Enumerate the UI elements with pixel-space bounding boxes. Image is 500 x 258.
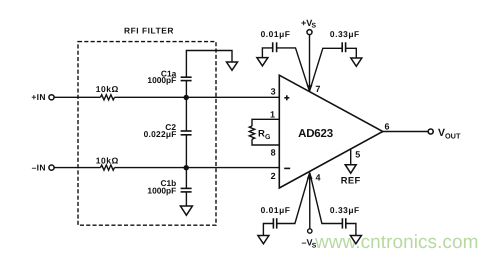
svg-text:S: S bbox=[312, 23, 317, 30]
wire C1a to top ground bbox=[186, 51, 232, 78]
wire C1b to ground bbox=[185, 192, 187, 206]
svg-text:+IN: +IN bbox=[31, 92, 45, 102]
svg-text:AD623: AD623 bbox=[298, 128, 333, 140]
svg-text:10kΩ: 10kΩ bbox=[96, 84, 119, 94]
resistor R 10k ohm (top) bbox=[96, 84, 119, 100]
pin 6 output wire bbox=[383, 121, 428, 131]
pin 3 label bbox=[271, 86, 276, 96]
ground (bottom 0.33uF) bbox=[350, 236, 361, 244]
svg-text:3: 3 bbox=[271, 86, 276, 96]
junction node B (-IN row) bbox=[184, 165, 189, 170]
RFI FILTER label bbox=[124, 26, 174, 36]
wire 0.01uF to pin7 bbox=[277, 48, 310, 91]
wire 0.01uF bottom left to ground bbox=[263, 224, 273, 236]
wire pin1 to RG bbox=[252, 119, 279, 126]
wire +VS to pin7 bbox=[309, 35, 311, 92]
wire C2 to junction B bbox=[185, 135, 187, 168]
ground (top 0.01uF) bbox=[257, 58, 268, 66]
ground (top 0.33uF) bbox=[351, 58, 362, 66]
wire 0.01uF to pin4 bbox=[277, 173, 310, 224]
svg-text:8: 8 bbox=[271, 147, 276, 157]
capacitor 0.33uF (bottom) bbox=[330, 205, 360, 229]
svg-text:G: G bbox=[265, 134, 271, 141]
ground (C1b) bbox=[180, 206, 192, 215]
wire junction A up to C1a bbox=[185, 81, 187, 98]
wire 0.01uF top left to ground bbox=[262, 48, 272, 58]
capacitor 0.01uF (bottom) bbox=[261, 205, 291, 229]
wire 0.33uF to pin4 bbox=[310, 173, 343, 224]
svg-text:0.01μF: 0.01μF bbox=[261, 29, 291, 39]
node -IN terminal bbox=[32, 163, 54, 173]
pin 2 label bbox=[271, 171, 276, 181]
svg-text:www.cntronics.com: www.cntronics.com bbox=[314, 232, 478, 253]
svg-text:0.33μF: 0.33μF bbox=[330, 205, 360, 215]
capacitor 0.01uF (top) bbox=[261, 29, 291, 52]
ground (C1a) bbox=[227, 62, 238, 70]
svg-text:RFI FILTER: RFI FILTER bbox=[124, 26, 174, 36]
ground (bottom 0.01uF) bbox=[258, 236, 269, 244]
wire +IN to resistor bbox=[54, 96, 100, 98]
capacitor C2 0.022uF bbox=[144, 122, 192, 139]
svg-text:0.022μF: 0.022μF bbox=[144, 129, 177, 139]
svg-text:1000pF: 1000pF bbox=[147, 186, 176, 196]
capacitor 0.33uF (top) bbox=[330, 29, 360, 52]
+VS supply terminal bbox=[301, 18, 317, 35]
wire resistor to pin3 bbox=[115, 96, 280, 98]
wire resistor to pin2 bbox=[115, 167, 280, 169]
svg-text:REF: REF bbox=[341, 174, 361, 185]
junction node A (+IN row) bbox=[184, 95, 189, 100]
pin 4 junction arrowhead bbox=[307, 172, 321, 182]
op-amp U1 AD623 bbox=[279, 75, 383, 188]
svg-text:R: R bbox=[258, 129, 265, 140]
-VS supply terminal bbox=[302, 229, 317, 250]
svg-text:1: 1 bbox=[270, 109, 275, 119]
wire 0.33uF bottom right to ground bbox=[346, 224, 356, 236]
wire -VS to pin4 bbox=[309, 173, 311, 229]
svg-text:–IN: –IN bbox=[32, 163, 46, 173]
resistor R 10k ohm (bottom) bbox=[96, 156, 119, 171]
svg-text:OUT: OUT bbox=[445, 131, 461, 140]
svg-text:0.01μF: 0.01μF bbox=[261, 205, 291, 215]
resistor RG bbox=[249, 126, 271, 141]
svg-text:5: 5 bbox=[355, 149, 360, 159]
capacitor C1a 1000pF bbox=[147, 68, 191, 85]
svg-text:7: 7 bbox=[315, 84, 320, 94]
wire 0.33uF to pin7 bbox=[310, 48, 343, 91]
capacitor C1b 1000pF bbox=[147, 178, 191, 196]
wire RG to pin8 bbox=[252, 139, 279, 145]
pin 7 junction arrowhead bbox=[307, 84, 321, 94]
node +IN terminal bbox=[31, 92, 54, 102]
svg-text:2: 2 bbox=[271, 171, 276, 181]
ground (REF) bbox=[341, 165, 361, 186]
svg-text:V: V bbox=[438, 127, 445, 139]
pin 1 label bbox=[270, 109, 275, 119]
pin 5 wire bbox=[351, 149, 361, 164]
svg-text:S: S bbox=[312, 242, 317, 249]
svg-text:0.33μF: 0.33μF bbox=[330, 29, 360, 39]
wire junction A down to C2 bbox=[185, 98, 187, 132]
wire -IN to resistor bbox=[54, 167, 100, 169]
RFI FILTER dashed box bbox=[78, 42, 216, 226]
svg-text:1000pF: 1000pF bbox=[147, 75, 176, 85]
wire junction B down to C1b bbox=[185, 168, 187, 189]
svg-text:6: 6 bbox=[385, 121, 390, 131]
svg-text:4: 4 bbox=[316, 173, 321, 183]
watermark www.cntronics.com bbox=[314, 232, 478, 253]
svg-text:10kΩ: 10kΩ bbox=[96, 156, 119, 166]
wire 0.33uF top right to ground bbox=[346, 48, 357, 58]
pin 8 label bbox=[271, 147, 276, 157]
node VOUT terminal bbox=[428, 127, 461, 140]
